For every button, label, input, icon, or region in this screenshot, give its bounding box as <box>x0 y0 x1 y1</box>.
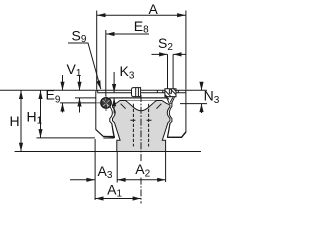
svg-text:N3: N3 <box>204 87 220 106</box>
label backing <box>135 162 150 177</box>
centerline <box>140 95 142 204</box>
carriage outline <box>96 90 186 137</box>
rail top U channel <box>125 101 156 111</box>
top plug on carriage <box>132 88 141 97</box>
dim S2 <box>152 53 186 55</box>
recess ticks near S2 <box>157 90 178 93</box>
svg-text:A3: A3 <box>98 163 113 181</box>
svg-text:S9: S9 <box>72 27 87 45</box>
S2 hole extension lines <box>168 54 174 88</box>
dim H <box>20 90 22 151</box>
dim E8 <box>105 30 107 96</box>
svg-text:E8: E8 <box>134 18 149 36</box>
S9 leader <box>68 43 101 89</box>
S2 top bolt <box>165 89 176 97</box>
bottom ext lines <box>94 139 96 200</box>
dim A1 row <box>95 198 141 200</box>
carriage bottom right chamfer and face <box>167 132 186 137</box>
svg-text:S2: S2 <box>158 35 173 53</box>
cavity top line <box>110 97 172 99</box>
cavity top ext for V1 <box>75 97 96 99</box>
svg-text:E9: E9 <box>46 87 61 106</box>
dim E9 <box>62 75 64 113</box>
left top reference line (carriage top extended) <box>0 89 207 91</box>
carriage bottom left chamfer and face <box>96 130 115 138</box>
dim N3 <box>201 83 203 113</box>
svg-text:H: H <box>10 113 20 129</box>
rail <box>113 101 170 152</box>
dim H1 <box>40 90 42 137</box>
svg-text:A1: A1 <box>107 182 122 200</box>
carriage inner wall lower curves <box>112 124 170 138</box>
dim A <box>97 11 186 90</box>
dim A3 / A2 row <box>70 179 95 181</box>
svg-text:V1: V1 <box>67 61 82 79</box>
S9 side bolt <box>101 98 112 109</box>
rail hidden bolt hole dashed <box>133 104 148 147</box>
dim V1 <box>79 75 81 113</box>
base line <box>15 151 201 153</box>
N3 lower ext <box>180 103 207 105</box>
svg-text:A: A <box>149 1 159 17</box>
dim K3 <box>113 72 115 114</box>
H1 bottom ext (carriage bottom) <box>37 137 96 139</box>
carriage top step line <box>98 90 186 93</box>
svg-text:K3: K3 <box>120 63 135 82</box>
bolt center ext for E9 <box>60 102 96 104</box>
